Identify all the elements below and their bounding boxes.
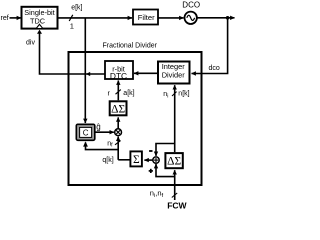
- wire C output ghat to multiplier: [96, 131, 114, 133]
- svg-text:ΔΣ: ΔΣ: [167, 156, 181, 168]
- svg-text:DCO: DCO: [182, 0, 200, 9]
- svg-text:Divider: Divider: [162, 71, 186, 80]
- oscillator DCO: [182, 0, 200, 24]
- svg-text:q[k]: q[k]: [102, 157, 113, 164]
- net label dco: [209, 65, 220, 72]
- wire e[k] branch down to correlator C: [84, 18, 86, 123]
- label Fractional Divider: [103, 43, 158, 50]
- node ref input label: [1, 15, 9, 22]
- bus slash on e[k] wire: [69, 15, 73, 21]
- block Single-bit TDC: [22, 7, 58, 29]
- block correlator C: [76, 124, 95, 140]
- svg-text:ĝ: ĝ: [96, 122, 100, 131]
- svg-text:ni,nf: ni,nf: [150, 189, 164, 200]
- bus width label n_f: [107, 140, 113, 148]
- bus slash n_f on multiplier input: [115, 141, 121, 145]
- wire branch to C bottom input: [83, 141, 118, 149]
- wire q[k] scaled into multiplier: [117, 137, 119, 160]
- net label div: [26, 40, 35, 47]
- bus slash on n wire: [172, 92, 177, 96]
- node label e[k]: [71, 4, 82, 11]
- net label n[k]: [178, 91, 189, 98]
- wire Filter to DCO: [158, 17, 184, 19]
- svg-text:FCW: FCW: [167, 201, 187, 211]
- wire Sigma output q[k]: [118, 159, 130, 161]
- svg-text:r: r: [108, 90, 111, 97]
- bus slash on a[k] wire: [116, 90, 121, 95]
- plus sign at adder bottom input: [149, 169, 153, 173]
- block delta-sigma modulator (divider path): [165, 153, 182, 168]
- svg-text:a[k]: a[k]: [123, 90, 134, 97]
- block Integer Divider: [158, 62, 190, 84]
- svg-text:ni: ni: [163, 91, 168, 99]
- minus sign at adder top input: [149, 150, 152, 152]
- svg-text:ref: ref: [1, 15, 9, 22]
- svg-text:ΔΣ: ΔΣ: [111, 104, 125, 116]
- wire delta-sigma output n[k] to Integer Divider: [174, 85, 176, 152]
- wire a[k] from delta-sigma to DTC: [117, 81, 119, 101]
- wire DCO output to right edge: [197, 17, 235, 19]
- bus width label n_i: [163, 91, 168, 99]
- wire DCO feedback down right side: [192, 18, 228, 74]
- wire n[k] branch into adder minus input: [156, 144, 175, 156]
- wire DTC output div to TDC: [40, 33, 106, 76]
- svg-text:div: div: [26, 40, 35, 47]
- block r-bit DTC: [105, 61, 133, 81]
- multiplier: [115, 129, 122, 136]
- clock arrowhead into TDC bottom: [36, 24, 43, 34]
- net label a[k]: [123, 90, 134, 97]
- block Sigma accumulator: [130, 151, 142, 166]
- svg-text:DTC: DTC: [110, 71, 127, 81]
- bus width label n_i,n_f: [150, 189, 164, 200]
- gain label ghat: [96, 122, 100, 131]
- wire TDC output e[k] to Filter: [58, 17, 132, 19]
- block delta-sigma modulator (DTC path): [110, 101, 127, 115]
- wire fractional branch into adder plus input: [156, 164, 175, 177]
- input label FCW: [167, 201, 187, 211]
- wire adder output to Sigma: [144, 159, 153, 161]
- svg-text:TDC: TDC: [30, 17, 45, 26]
- block Fractional Divider enclosure: [69, 52, 202, 185]
- svg-text:Fractional Divider: Fractional Divider: [103, 43, 158, 50]
- bus slash on FCW wire: [172, 193, 177, 198]
- svg-text:C: C: [83, 129, 89, 138]
- net label q[k]: [102, 157, 113, 164]
- svg-text:n[k]: n[k]: [178, 91, 189, 98]
- junction dot on DCO output: [226, 16, 230, 20]
- wire Integer Divider output to DTC: [134, 72, 158, 74]
- svg-text:nf: nf: [107, 140, 113, 148]
- svg-text:1: 1: [70, 22, 74, 31]
- block Filter: [133, 10, 158, 25]
- svg-text:Σ: Σ: [133, 154, 140, 166]
- wire multiplier output up to delta-sigma: [117, 117, 119, 128]
- wire FCW input: [174, 170, 176, 200]
- svg-text:e[k]: e[k]: [71, 4, 82, 11]
- adder: [153, 157, 159, 163]
- svg-text:Filter: Filter: [138, 13, 155, 22]
- wire ref to TDC: [10, 17, 22, 19]
- bus width label r: [108, 90, 111, 97]
- svg-text:dco: dco: [209, 65, 220, 72]
- bus width label 1: [70, 22, 74, 31]
